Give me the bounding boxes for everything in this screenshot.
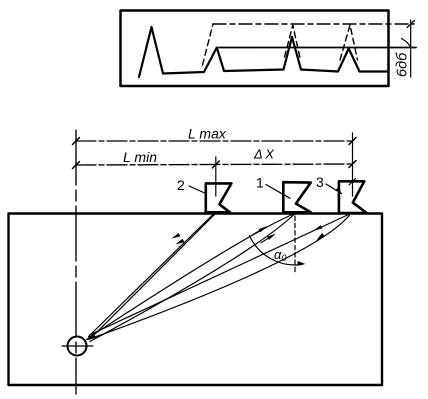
solid amplitude reference line (echo level) <box>219 47 416 49</box>
leader for label 1 <box>266 185 290 199</box>
arrow on probe 2 ray a <box>171 233 180 239</box>
tick at probe 3 top crossing <box>349 179 356 186</box>
beam normal (dashed vertical under probe 1) <box>294 216 296 272</box>
tick L min left <box>73 162 80 169</box>
leader for label 2 <box>189 186 206 194</box>
probe 1 (middle transducer) <box>283 182 310 212</box>
dimension line L min / delta X <box>76 164 353 165</box>
leader for label 3 with arrow <box>326 184 342 194</box>
extension line through probe 3 (x=352.5) <box>352 133 354 196</box>
tick delta X right <box>349 161 356 168</box>
tick L max right <box>349 138 356 145</box>
test block <box>9 214 383 386</box>
dashed echo 4 <box>340 25 358 60</box>
beam rays from probe 3 <box>90 215 349 336</box>
A-scan trace (solid): initial pulse, baseline, echoes 2,3,4 <box>139 27 388 77</box>
svg-text:6дб: 6дб <box>395 52 411 77</box>
arrow on probe 3 ray b <box>316 233 324 241</box>
svg-text:1: 1 <box>256 175 264 191</box>
arrow on probe 2 ray b <box>175 239 184 245</box>
arrow on probe 1 ray a (pointing back to probe) <box>259 226 268 232</box>
arrowhead on angle arc <box>297 261 305 266</box>
flaw centerline (vertical axis through reflector) <box>75 130 77 394</box>
svg-text:ΔX: ΔX <box>253 147 275 162</box>
oscilloscope screen frame <box>121 11 389 87</box>
arrow on probe 1 ray b (pointing back to probe) <box>267 234 276 240</box>
svg-text:L min: L min <box>123 149 157 165</box>
svg-text:α0: α0 <box>274 247 286 263</box>
flaw center mark <box>62 345 93 347</box>
arrowhead at flaw circle <box>84 333 96 340</box>
extension line through probe 2 (beam exit, x=215.8) <box>215 157 217 196</box>
flaw circle (reflector) <box>68 337 87 356</box>
tick L max left <box>73 138 80 145</box>
svg-text:2: 2 <box>177 177 185 193</box>
dashed echo 2 rising edge <box>203 24 214 65</box>
dashed echo 3 <box>285 25 301 58</box>
probe 2 (left transducer) <box>206 183 232 212</box>
svg-text:3: 3 <box>316 174 324 190</box>
6 dB dimension tick at dashed level <box>407 21 415 28</box>
beam rays from probe 1 <box>89 215 293 338</box>
dimension line L max <box>76 140 353 142</box>
6 dB dimension line <box>410 20 412 77</box>
arrow on probe 3 ray a <box>314 225 323 230</box>
angle arc alpha0 <box>249 236 302 265</box>
tick at L min / delta X boundary <box>212 161 219 168</box>
probe 3 (right transducer) <box>339 181 367 213</box>
6 dB curved arrow at solid level <box>402 39 411 48</box>
svg-text:L max: L max <box>188 126 227 142</box>
beam rays from probe 2 <box>89 215 214 337</box>
dashed envelope reference line <box>213 23 414 25</box>
